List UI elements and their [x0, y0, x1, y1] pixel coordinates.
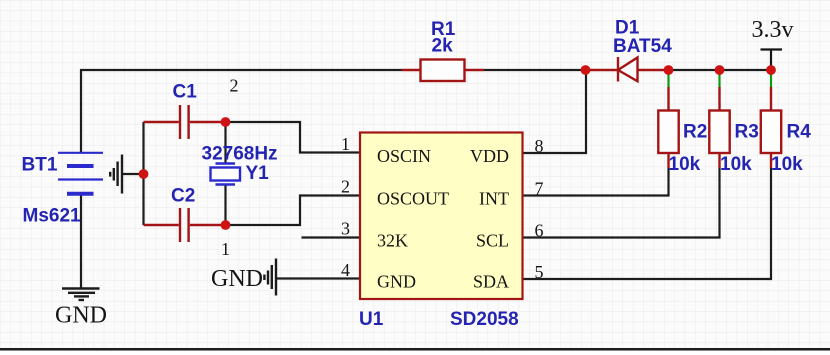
- svg-text:Ms621: Ms621: [23, 206, 82, 227]
- svg-text:GND: GND: [211, 266, 263, 292]
- junction R2 rail: [664, 65, 674, 75]
- svg-text:BT1: BT1: [22, 155, 58, 176]
- svg-text:4: 4: [341, 260, 350, 280]
- svg-text:R4: R4: [787, 122, 812, 143]
- junction R3 rail: [715, 65, 725, 75]
- svg-text:2: 2: [341, 177, 350, 197]
- svg-text:GND: GND: [377, 272, 416, 292]
- ground symbol at battery: [110, 155, 122, 194]
- crystal Y1 leads: [224, 122, 226, 225]
- resistor R3: [709, 87, 729, 168]
- wire green segment R2 top: [667, 73, 669, 87]
- junction battery ground: [139, 169, 149, 179]
- junction R4 rail 3.3v: [766, 65, 776, 75]
- wire node OSC1 to OSCIN pin1: [226, 122, 361, 153]
- wire R1 right to junction A: [484, 69, 586, 71]
- svg-text:OSCIN: OSCIN: [377, 146, 431, 166]
- svg-text:7: 7: [535, 179, 544, 199]
- svg-text:10k: 10k: [669, 154, 701, 175]
- op-amp U1 ic body SD2058: [360, 133, 523, 300]
- junction node A R1 diode pin8: [581, 65, 591, 75]
- svg-text:OSCOUT: OSCOUT: [377, 189, 449, 209]
- svg-text:1: 1: [221, 239, 230, 259]
- svg-text:10k: 10k: [771, 154, 803, 175]
- svg-text:INT: INT: [479, 189, 509, 209]
- svg-text:BAT54: BAT54: [613, 36, 672, 57]
- svg-text:SDA: SDA: [473, 272, 509, 292]
- svg-text:1: 1: [341, 134, 350, 154]
- wire green segment R4 top: [770, 73, 772, 87]
- junction node OSC2: [221, 220, 231, 230]
- svg-text:2: 2: [230, 76, 239, 96]
- resistor R2: [658, 87, 678, 168]
- wire battery minus to ground: [80, 194, 82, 289]
- svg-text:3.3v: 3.3v: [752, 17, 794, 43]
- wire battery plus up and top rail to R1: [81, 70, 402, 153]
- junction node OSC1: [221, 117, 231, 127]
- ground symbol GND at pin4: [264, 259, 276, 296]
- svg-text:GND: GND: [55, 303, 107, 329]
- power 3.3v bar: [761, 50, 783, 71]
- wire INT pin7 to R2: [523, 168, 669, 196]
- capacitor C1: [144, 105, 226, 139]
- svg-text:SD2058: SD2058: [450, 309, 519, 330]
- wire SDA pin5 to R4: [523, 168, 771, 279]
- wire green segment R3 top: [718, 73, 720, 87]
- svg-text:10k: 10k: [720, 154, 752, 175]
- diode D1: [586, 57, 669, 82]
- svg-text:Y1: Y1: [246, 163, 270, 184]
- resistor R4: [761, 87, 781, 168]
- wire rail diode to R2 R3 R4 junctions: [669, 69, 772, 71]
- wire 32K pin3 stub: [302, 236, 361, 238]
- svg-text:VDD: VDD: [470, 146, 509, 166]
- ground symbol bottom left: [62, 289, 100, 301]
- wire GND pin4 to ground: [276, 277, 360, 279]
- svg-text:C1: C1: [173, 82, 198, 103]
- resistor R1: [402, 60, 485, 82]
- svg-text:R2: R2: [683, 122, 707, 143]
- svg-text:32768Hz: 32768Hz: [202, 144, 278, 165]
- svg-text:6: 6: [535, 221, 544, 241]
- svg-text:C2: C2: [171, 186, 195, 207]
- svg-text:SCL: SCL: [476, 231, 509, 251]
- svg-text:2k: 2k: [432, 36, 454, 57]
- svg-text:R3: R3: [735, 122, 759, 143]
- battery BT1: [58, 153, 103, 194]
- svg-text:3: 3: [341, 219, 350, 239]
- sheet bottom border: [0, 348, 830, 355]
- svg-text:32K: 32K: [377, 231, 408, 251]
- svg-text:U1: U1: [359, 309, 384, 330]
- wire node OSC2 to OSCOUT pin2: [226, 196, 361, 226]
- wire C1 C2 left vertical link: [142, 122, 144, 225]
- wire VDD pin8 to junction A: [523, 70, 586, 153]
- svg-text:5: 5: [535, 262, 544, 282]
- capacitor C2: [144, 208, 226, 242]
- svg-text:8: 8: [535, 136, 544, 156]
- wire ground branch to battery net: [122, 173, 144, 175]
- crystal Y1: [211, 164, 241, 185]
- wire SCL pin6 to R3: [523, 168, 720, 238]
